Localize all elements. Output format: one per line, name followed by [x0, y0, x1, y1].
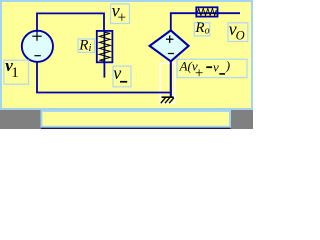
label v1 — [4, 56, 29, 84]
label vO — [228, 19, 248, 43]
wire: source bottom along bottom to ground node — [37, 62, 172, 93]
dependent source A(v+-v-) diamond — [150, 30, 189, 61]
svg-text:+: + — [118, 10, 127, 27]
svg-text:o: o — [205, 25, 210, 36]
svg-text:R: R — [194, 20, 204, 36]
svg-text:v: v — [213, 59, 219, 74]
svg-text:+: + — [195, 66, 203, 82]
svg-text:v: v — [113, 63, 121, 83]
label Ri — [78, 37, 95, 54]
svg-text:i: i — [89, 43, 92, 54]
label A(v+ - v-) — [177, 58, 247, 82]
svg-text:R: R — [78, 37, 88, 53]
diamond minus sign — [168, 53, 174, 55]
svg-text:1: 1 — [11, 65, 19, 81]
panel background — [0, 0, 253, 110]
label v+ — [111, 1, 130, 27]
V1 plus sign — [32, 32, 41, 41]
voltage source V1 — [22, 31, 53, 62]
V1 minus sign — [34, 55, 40, 57]
resistor Ri — [97, 31, 113, 78]
svg-text:O: O — [236, 29, 245, 43]
white highlight box around ground — [160, 63, 175, 103]
resistor Ro — [196, 7, 217, 16]
wire: diamond bottom to ground — [170, 61, 172, 97]
bottom gray bar — [0, 110, 253, 129]
wire: diamond top to Ro and output — [171, 13, 240, 31]
bottom yellow field — [41, 111, 231, 129]
diamond plus sign — [166, 36, 174, 43]
wire: source top to Ri top — [37, 13, 104, 32]
svg-text:): ) — [225, 58, 230, 73]
ground — [161, 97, 174, 103]
label Ro — [194, 20, 209, 36]
label v- — [113, 63, 131, 87]
